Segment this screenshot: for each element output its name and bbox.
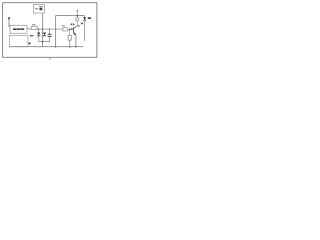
wire R2 to Q1 base	[68, 28, 74, 30]
wire collecting bus	[39, 41, 50, 43]
label right of B1 bottom	[28, 43, 31, 45]
wire SP1 down	[42, 13, 44, 47]
capacitor C1	[49, 29, 51, 34]
node +V symbol	[76, 10, 78, 13]
diode D2	[43, 33, 46, 36]
label above R1	[32, 24, 36, 25]
box B1 (lower-left block)	[9, 35, 28, 46]
label right of LED	[88, 17, 91, 19]
wire Q1 emitter down	[75, 34, 77, 46]
label above Q1	[71, 24, 73, 26]
wire +V stub	[76, 12, 78, 18]
junction dots	[38, 28, 40, 30]
node A terminal dot	[8, 17, 10, 19]
label inside U1	[13, 28, 24, 30]
box U1 (upper-left block)	[10, 25, 27, 33]
resistor R4 (base to rail)	[69, 29, 71, 31]
wire R3 to Q1 collector	[74, 21, 77, 29]
diode D1	[38, 29, 40, 32]
resistor R2	[63, 28, 68, 31]
LED D3	[84, 16, 86, 18]
wire top rail horizontal	[56, 15, 85, 17]
wire	[8, 19, 10, 28]
resistor R3	[76, 18, 79, 21]
label above R2	[62, 25, 66, 26]
resistor R1	[31, 26, 37, 29]
bottom rail	[9, 46, 83, 48]
wire U1 to R1	[27, 28, 31, 30]
wire R1 to node row	[37, 28, 63, 30]
label right of B1 top	[30, 35, 34, 36]
symbol inside SP1	[35, 8, 37, 9]
border frame	[3, 3, 97, 58]
box SP1 (top-middle block)	[33, 4, 44, 13]
rail junction dots	[55, 46, 57, 48]
wire top rail vertical	[55, 16, 57, 47]
label near R3	[81, 23, 83, 25]
transistor Q1	[73, 27, 75, 34]
caption tick below border	[49, 57, 51, 60]
